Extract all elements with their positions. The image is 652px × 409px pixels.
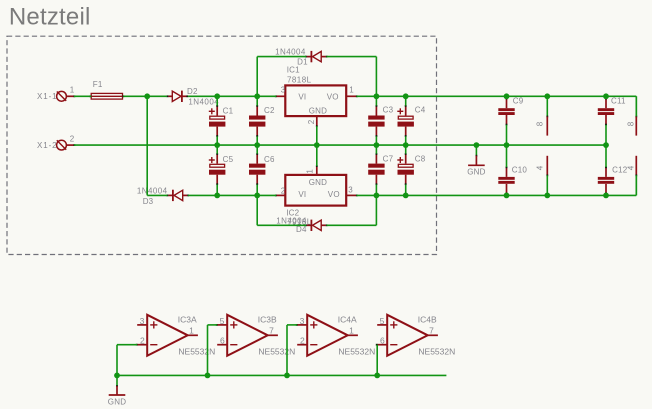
node C2-C6 mid [254, 142, 260, 148]
wire IC4A pin3 horiz [287, 324, 297, 326]
svg-text:C2: C2 [264, 106, 275, 115]
wire D4 riser left [256, 195, 258, 225]
svg-text:3: 3 [348, 186, 353, 195]
svg-text:1: 1 [349, 86, 354, 95]
dashed frame [7, 36, 437, 254]
svg-text:GND: GND [108, 397, 126, 406]
svg-text:2: 2 [140, 336, 145, 346]
svg-text:2: 2 [281, 187, 286, 196]
node C12 bottom [603, 193, 609, 199]
svg-text:C4: C4 [415, 106, 426, 115]
wire D4 riser right [375, 195, 377, 225]
svg-text:NE5532N: NE5532N [338, 347, 375, 357]
svg-text:C7: C7 [383, 155, 394, 164]
svg-text:6: 6 [380, 336, 385, 346]
node IC3B riser [205, 373, 211, 379]
wire +rail right drop [635, 96, 637, 116]
svg-text:IC2: IC2 [286, 209, 299, 218]
svg-text:C12: C12 [612, 165, 628, 174]
connector X1-2 [37, 135, 75, 151]
node C3 / D1 riser right [374, 93, 380, 99]
capacitor C1 [209, 96, 234, 145]
svg-text:1: 1 [306, 169, 315, 174]
node C1-C5 mid [214, 142, 220, 148]
svg-text:VI: VI [298, 92, 306, 101]
wire IC3B pin5 riser [207, 325, 209, 376]
capacitor C5 [209, 145, 234, 195]
svg-text:4: 4 [536, 165, 545, 170]
capacitor C12 [598, 145, 628, 195]
svg-text:C8: C8 [415, 155, 426, 164]
svg-text:C1: C1 [223, 106, 234, 115]
svg-text:NE5532N: NE5532N [418, 347, 455, 357]
wire IC4B pin6 riser [376, 345, 378, 376]
svg-text:2: 2 [307, 119, 316, 124]
wire op-amp ground rail [117, 374, 446, 376]
svg-text:C10: C10 [512, 165, 528, 174]
wire IC1 GND to mid rail [316, 126, 318, 145]
capacitor C6 [249, 145, 275, 195]
node C4 top [403, 93, 409, 99]
svg-text:C9: C9 [513, 96, 524, 105]
svg-text:1: 1 [70, 86, 75, 95]
svg-text:GND: GND [467, 168, 485, 177]
svg-text:8: 8 [536, 121, 545, 126]
op-amp IC4A NE5532N [296, 314, 375, 356]
op-amp IC3A NE5532N [136, 314, 215, 356]
svg-text:IC3A: IC3A [178, 314, 197, 324]
svg-text:IC4A: IC4A [338, 314, 357, 324]
svg-text:6: 6 [220, 336, 225, 346]
node C7 / D4 riser right [374, 193, 380, 199]
wire X1-2 rail [74, 144, 606, 146]
svg-text:7: 7 [269, 326, 274, 336]
node IC4A riser [284, 373, 290, 379]
node regulators GND [314, 142, 320, 148]
capacitor C2 [249, 96, 275, 145]
node C9 top [504, 93, 510, 99]
voltage regulator IC1 7818L [275, 66, 358, 128]
wire F1 to D2 [123, 95, 167, 97]
svg-text:Netzteil: Netzteil [9, 4, 91, 31]
svg-text:NE5532N: NE5532N [258, 347, 295, 357]
diode D4 1N4004 [276, 216, 327, 234]
diode D1 1N4004 [275, 48, 327, 67]
svg-text:2: 2 [300, 336, 305, 346]
svg-text:3: 3 [281, 86, 286, 95]
svg-text:IC1: IC1 [287, 66, 300, 75]
svg-text:VO: VO [327, 92, 339, 101]
node C11 top [603, 93, 609, 99]
node C3-C7 mid [374, 142, 380, 148]
svg-text:5: 5 [380, 316, 385, 326]
wire IC3A pin2 horiz [117, 344, 137, 346]
node C11-C12 mid [603, 142, 609, 148]
svg-text:4: 4 [627, 165, 636, 170]
svg-text:3: 3 [140, 316, 145, 326]
svg-text:VO: VO [328, 190, 340, 199]
capacitor C4 [397, 96, 425, 145]
svg-text:GND: GND [309, 106, 327, 115]
node GND symbol [474, 142, 480, 148]
wire -rail right rise [635, 175, 637, 195]
connector X1-1 [37, 86, 75, 102]
title Netzteil [9, 4, 91, 31]
wire IC4A pin3 riser [286, 325, 288, 376]
svg-text:7818L: 7818L [287, 76, 312, 85]
op-amp IC3B NE5532N [216, 314, 295, 356]
node C5 bottom [214, 193, 220, 199]
svg-text:1: 1 [349, 326, 354, 336]
wire IC2 GND to mid rail [316, 145, 318, 166]
diode D3 1N4004 [137, 186, 189, 206]
svg-text:1N4004: 1N4004 [188, 98, 219, 107]
fuse F1 [90, 80, 125, 99]
capacitor C9 [498, 96, 523, 145]
node C10 bottom [504, 193, 510, 199]
svg-text:X1-2: X1-2 [37, 141, 58, 150]
svg-text:NE5532N: NE5532N [178, 347, 215, 357]
capacitor C10 [498, 145, 527, 195]
wire X1-1 to F1 [74, 95, 91, 97]
node pin8 riser IC3P [544, 93, 550, 99]
node C2 / D1 riser [254, 93, 260, 99]
wire D4 line left [257, 224, 306, 226]
wire D1 riser right [375, 57, 377, 97]
node C8 bottom [403, 193, 409, 199]
ground GND (supply) [467, 145, 485, 177]
svg-text:IC3B: IC3B [258, 314, 277, 324]
wire riser to D3 line [146, 96, 148, 195]
wire D4 line right [327, 224, 377, 226]
svg-text:C5: C5 [223, 155, 234, 164]
wire D1 riser left [256, 57, 258, 97]
node C9-C10 mid [504, 142, 510, 148]
svg-text:2: 2 [70, 135, 75, 144]
wire IC3A pin2 riser [116, 345, 118, 376]
svg-text:7: 7 [429, 326, 434, 336]
svg-text:GND: GND [309, 178, 327, 187]
capacitor C3 [368, 96, 393, 145]
svg-text:VI: VI [298, 190, 306, 199]
svg-text:F1: F1 [93, 80, 103, 89]
svg-text:C3: C3 [383, 106, 394, 115]
wire IC2 VO rail [357, 194, 637, 196]
wire D1 line left [257, 56, 306, 58]
svg-text:3: 3 [300, 316, 305, 326]
voltage regulator IC2 7918L [275, 165, 358, 226]
svg-text:8: 8 [627, 121, 636, 126]
svg-text:D2: D2 [187, 87, 198, 96]
wire D3 line left [147, 194, 167, 196]
diode D2 1N4004 [167, 87, 220, 107]
ground GND (op-amp) [108, 375, 126, 406]
capacitor C7 [368, 145, 393, 195]
power pins IC3P (8 / 4) [536, 96, 549, 195]
node after fuse [144, 93, 150, 99]
node GND rail / IC3A [114, 373, 120, 379]
svg-text:1N4004: 1N4004 [137, 186, 168, 195]
svg-text:IC4B: IC4B [418, 314, 437, 324]
node C1 top [214, 93, 220, 99]
wire IC1 VO rail [357, 95, 637, 97]
node C6 / D4 riser [254, 193, 260, 199]
node IC4B riser [374, 373, 380, 379]
wire D1 line right [327, 56, 377, 58]
capacitor C11 [598, 96, 626, 145]
op-amp IC4B NE5532N [376, 314, 455, 356]
svg-text:1N4004: 1N4004 [275, 48, 306, 57]
svg-text:C11: C11 [611, 96, 626, 105]
capacitor C8 [397, 145, 425, 195]
svg-text:X1-1: X1-1 [37, 92, 58, 101]
wire D3 to IC2 VI [188, 194, 276, 196]
svg-text:1: 1 [189, 326, 194, 336]
wire D2 to IC1 VI [188, 95, 276, 97]
node pin4 riser IC3P [544, 193, 550, 199]
svg-text:D3: D3 [143, 197, 154, 206]
node C4-C8 mid [403, 142, 409, 148]
svg-text:5: 5 [220, 316, 225, 326]
power pins IC4P (8 / 4) [627, 96, 638, 195]
wire IC3B pin5 horiz [208, 324, 218, 326]
svg-text:C6: C6 [264, 155, 275, 164]
